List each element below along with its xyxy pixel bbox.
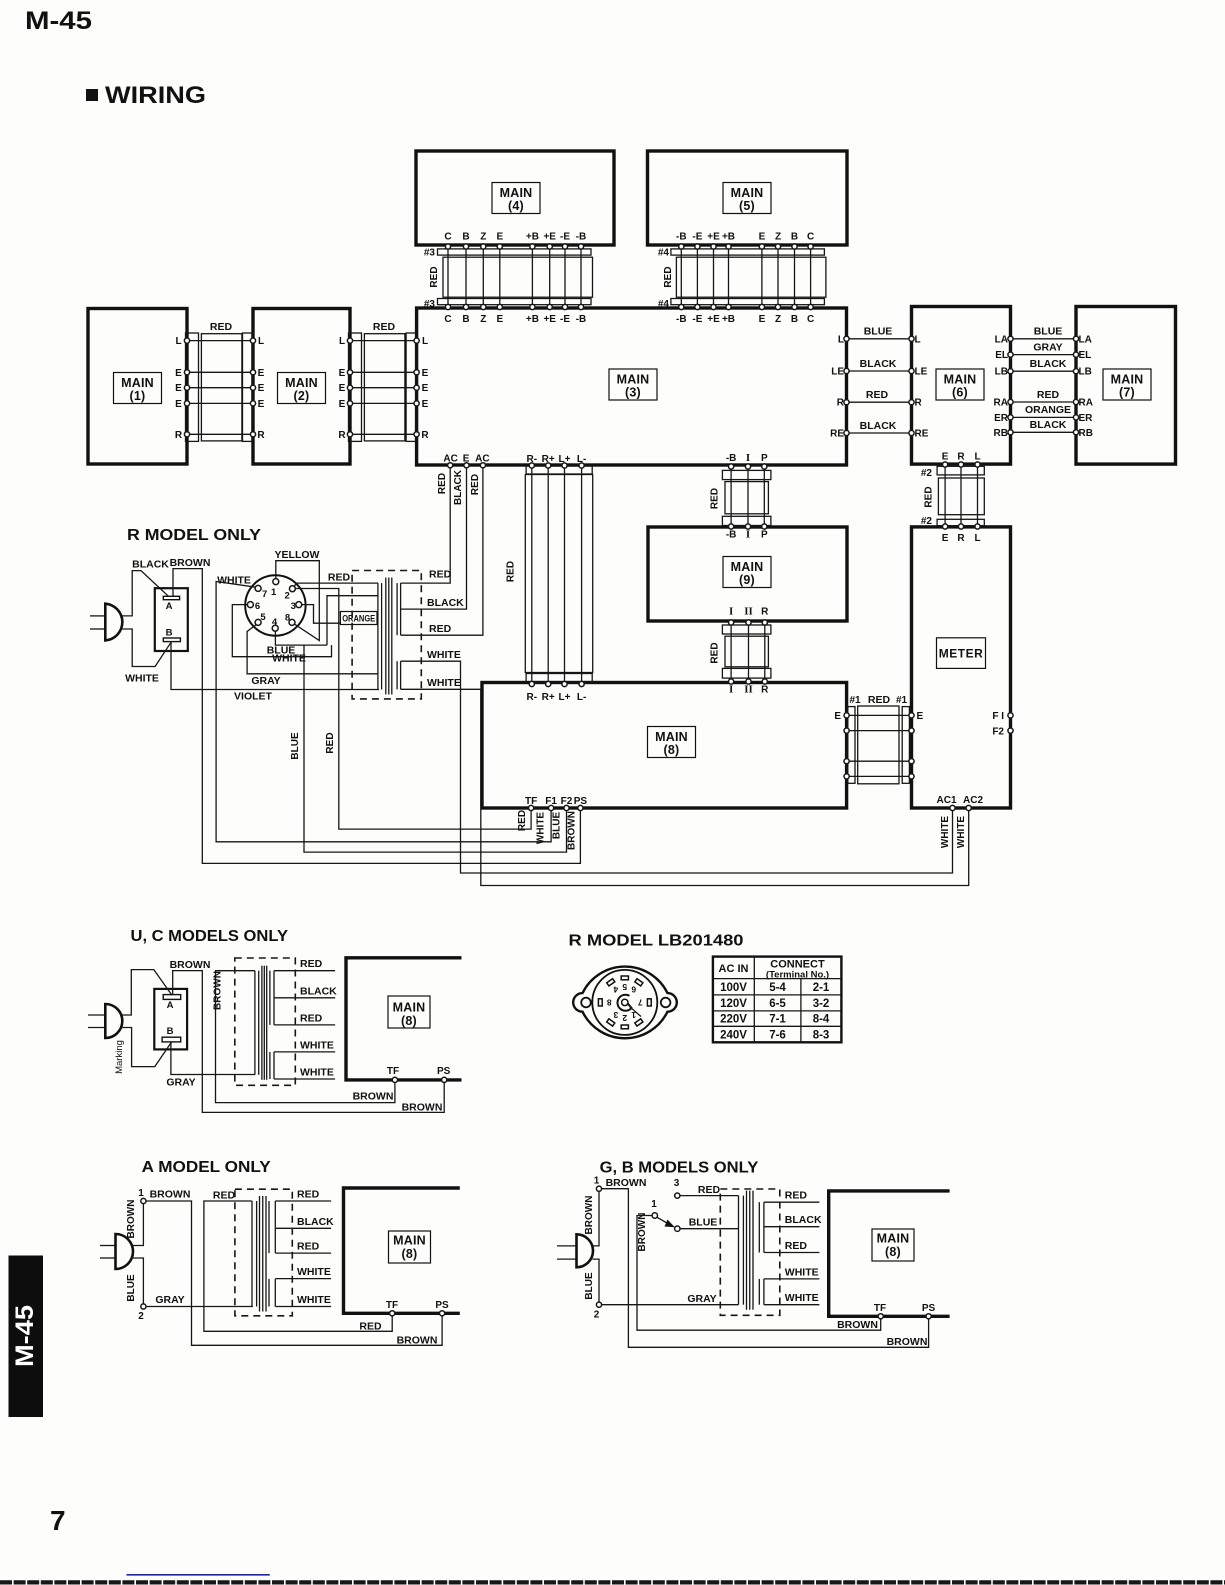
svg-text:#2: #2 xyxy=(921,468,933,479)
svg-text:8-4: 8-4 xyxy=(813,1014,830,1026)
svg-text:7-1: 7-1 xyxy=(769,1014,786,1026)
svg-text:A: A xyxy=(167,1000,174,1011)
svg-text:F2: F2 xyxy=(561,796,573,807)
svg-text:RED: RED xyxy=(325,732,336,753)
svg-text:BLACK: BLACK xyxy=(297,1216,334,1228)
svg-text:TF: TF xyxy=(874,1303,886,1314)
svg-text:6: 6 xyxy=(255,601,260,612)
svg-text:BLACK: BLACK xyxy=(132,559,169,571)
board MAIN(8) partial (U,C) xyxy=(346,958,462,1080)
board MAIN(8) partial (G,B) xyxy=(829,1191,950,1316)
svg-text:MAIN: MAIN xyxy=(731,186,764,200)
svg-text:5: 5 xyxy=(260,612,266,623)
svg-text:E: E xyxy=(463,454,470,465)
svg-text:RED: RED xyxy=(710,488,721,509)
wire BLUE plug to 2 (A model) xyxy=(126,1258,143,1304)
svg-text:BROWN: BROWN xyxy=(584,1196,595,1235)
svg-text:#2: #2 xyxy=(921,516,933,527)
svg-text:R: R xyxy=(957,452,965,463)
svg-text:L-: L- xyxy=(577,454,586,465)
wire plug to A (U,C) xyxy=(122,970,172,1015)
svg-text:+E: +E xyxy=(543,232,556,243)
connector -B I P ribbon MAIN(3)-MAIN(9) xyxy=(710,452,771,541)
terminal PS (U,C) xyxy=(437,1066,451,1083)
svg-text:E: E xyxy=(258,368,265,379)
svg-text:LE: LE xyxy=(915,367,928,378)
board MAIN (3) xyxy=(417,308,847,465)
wire BLUE L-L xyxy=(838,326,921,346)
svg-text:C: C xyxy=(444,232,451,243)
terminal F2 on METER right edge xyxy=(992,727,1013,738)
wire RED transformer primary to TF (A model) xyxy=(204,1190,392,1333)
svg-text:GRAY: GRAY xyxy=(155,1294,184,1306)
board MAIN (2) xyxy=(253,309,350,465)
svg-text:E: E xyxy=(258,383,265,394)
svg-text:(4): (4) xyxy=(508,199,524,213)
svg-text:LA: LA xyxy=(995,334,1008,345)
wire BROWN plug to 1 (A model) xyxy=(126,1200,143,1246)
wire BLACK LB-LB xyxy=(995,358,1092,378)
svg-text:100V: 100V xyxy=(720,982,747,994)
wire RED secondary output (power transformer (U,C models)) xyxy=(274,1012,335,1025)
svg-text:240V: 240V xyxy=(720,1029,747,1041)
svg-text:TF: TF xyxy=(386,1300,398,1311)
wire RED secondary output (power transformer (U,C models)) xyxy=(274,958,335,971)
wire BROWN A to PS xyxy=(170,557,581,863)
svg-text:M-45: M-45 xyxy=(11,1305,39,1367)
svg-text:RED: RED xyxy=(429,623,452,635)
svg-text:E: E xyxy=(339,383,346,394)
svg-text:BROWN: BROWN xyxy=(402,1102,443,1114)
svg-text:7: 7 xyxy=(50,1505,66,1536)
wire GRAY pin5 to transformer xyxy=(247,625,378,688)
svg-text:MAIN: MAIN xyxy=(121,376,154,390)
terminal AC2 on METER bottom + wire WHITE to transformer xyxy=(401,677,984,886)
wire RED transformer to AC xyxy=(401,463,453,583)
svg-text:M-45: M-45 xyxy=(25,7,92,35)
section bullet xyxy=(86,89,98,101)
svg-text:WHITE: WHITE xyxy=(125,673,159,685)
wire BROWN plug to 1 (G,B) xyxy=(584,1192,599,1246)
svg-text:RE: RE xyxy=(915,429,929,440)
svg-text:RED: RED xyxy=(297,1241,320,1253)
svg-text:AC IN: AC IN xyxy=(719,963,749,975)
pin labels AC E AC on MAIN(3) bottom xyxy=(443,454,489,465)
svg-text:R: R xyxy=(175,430,183,441)
svg-text:E: E xyxy=(496,314,503,325)
svg-text:E: E xyxy=(339,368,346,379)
wire WHITE secondary output (power transformer (A model)) xyxy=(275,1294,331,1307)
svg-text:E: E xyxy=(422,368,429,379)
svg-text:E: E xyxy=(175,383,182,394)
svg-text:B: B xyxy=(166,628,173,639)
svg-text:C: C xyxy=(807,314,814,325)
svg-text:P: P xyxy=(761,530,768,541)
terminal TF (U,C) xyxy=(387,1066,399,1083)
svg-text:R MODEL ONLY: R MODEL ONLY xyxy=(127,527,261,544)
svg-text:WHITE: WHITE xyxy=(427,649,461,661)
svg-text:BLUE: BLUE xyxy=(584,1272,595,1300)
terminal TF (A model) xyxy=(386,1300,398,1316)
svg-text:TF: TF xyxy=(525,796,537,807)
wire BLACK secondary output (power transformer (G,B models)) xyxy=(764,1214,822,1227)
svg-text:WHITE: WHITE xyxy=(217,575,251,587)
svg-text:BROWN: BROWN xyxy=(353,1091,394,1103)
terminal 1 (G,B) xyxy=(594,1176,602,1192)
wire BLACK secondary output (power transformer (U,C models)) xyxy=(274,985,337,998)
svg-text:TF: TF xyxy=(387,1066,399,1077)
svg-text:LB: LB xyxy=(995,367,1008,378)
svg-text:#1: #1 xyxy=(896,695,908,706)
svg-text:+E: +E xyxy=(707,232,720,243)
svg-text:G, B MODELS ONLY: G, B MODELS ONLY xyxy=(600,1160,759,1177)
svg-text:RED: RED xyxy=(868,694,891,706)
ribbon cable MAIN(2)-MAIN(3) RED xyxy=(347,321,419,441)
svg-text:MAIN: MAIN xyxy=(655,730,688,744)
svg-text:ORANGE: ORANGE xyxy=(1025,404,1071,416)
AC plug (G,B) xyxy=(557,1234,593,1267)
power transformer T1 (R model) xyxy=(352,571,421,699)
svg-text:L: L xyxy=(974,533,980,544)
svg-text:GRAY: GRAY xyxy=(687,1293,716,1305)
svg-text:WHITE: WHITE xyxy=(297,1266,331,1278)
board MAIN (9) xyxy=(648,527,847,621)
svg-text:B: B xyxy=(167,1026,174,1037)
svg-text:RED: RED xyxy=(698,1184,721,1196)
svg-text:I: I xyxy=(729,606,733,618)
svg-text:E: E xyxy=(834,711,841,722)
svg-text:RB: RB xyxy=(1079,428,1093,439)
svg-text:BLUE: BLUE xyxy=(552,812,563,840)
svg-text:E: E xyxy=(175,399,182,410)
svg-text:R: R xyxy=(421,430,429,441)
wire GRAY EL-EL xyxy=(995,341,1091,361)
svg-text:F2: F2 xyxy=(992,727,1004,738)
svg-text:BROWN: BROWN xyxy=(637,1213,648,1252)
svg-text:PS: PS xyxy=(574,796,588,807)
svg-text:L: L xyxy=(915,334,921,345)
svg-text:(3): (3) xyxy=(625,386,641,400)
terminal AC1 on METER bottom + wire WHITE to transformer xyxy=(401,649,957,873)
wire RED secondary output (power transformer (A model)) xyxy=(275,1189,331,1202)
connector #4 ribbon MAIN(5)-MAIN(3) xyxy=(658,232,826,326)
svg-text:R-: R- xyxy=(527,692,538,703)
svg-text:(8): (8) xyxy=(664,743,680,757)
wire GRAY B to transformer (U,C) xyxy=(166,1042,255,1089)
svg-text:R: R xyxy=(257,430,265,441)
wire RED pin2 to TF xyxy=(295,589,532,830)
svg-text:-E: -E xyxy=(692,314,702,325)
svg-text:R: R xyxy=(761,607,769,618)
svg-text:Marking: Marking xyxy=(114,1040,125,1074)
svg-text:BLUE: BLUE xyxy=(864,326,893,338)
svg-text:8-3: 8-3 xyxy=(813,1029,830,1041)
svg-text:(8): (8) xyxy=(885,1245,901,1259)
svg-text:MAIN: MAIN xyxy=(617,373,650,387)
svg-text:BLACK: BLACK xyxy=(1030,419,1067,431)
svg-text:AC2: AC2 xyxy=(963,795,983,806)
svg-text:RED: RED xyxy=(300,1012,323,1024)
connector #3 ribbon MAIN(4)-MAIN(3) xyxy=(424,232,593,326)
wire BROWN 1 to PS (G,B) xyxy=(602,1177,929,1348)
pin labels L E E E R on MAIN(2) right edge xyxy=(338,336,346,441)
wire BROWN switch to TF (G,B) xyxy=(637,1216,881,1332)
svg-text:1: 1 xyxy=(594,1176,600,1187)
svg-text:E: E xyxy=(759,232,766,243)
svg-text:GRAY: GRAY xyxy=(1033,341,1062,353)
svg-text:-E: -E xyxy=(692,232,702,243)
svg-text:E: E xyxy=(258,399,265,410)
svg-text:MAIN: MAIN xyxy=(500,186,533,200)
svg-text:WHITE: WHITE xyxy=(940,816,951,849)
svg-text:BLACK: BLACK xyxy=(427,597,464,609)
svg-text:L: L xyxy=(175,336,181,347)
wire link pin junction to primary xyxy=(327,596,378,645)
svg-text:RED: RED xyxy=(663,266,674,287)
svg-text:7: 7 xyxy=(638,997,643,1007)
svg-text:B: B xyxy=(791,232,798,243)
svg-text:RED: RED xyxy=(785,1190,808,1202)
wire RED transformer to AC (2nd) xyxy=(401,463,486,636)
svg-text:2: 2 xyxy=(284,590,289,601)
svg-text:BLACK: BLACK xyxy=(785,1214,822,1226)
svg-text:RED: RED xyxy=(924,486,935,507)
svg-text:-B: -B xyxy=(726,530,737,541)
svg-text:#4: #4 xyxy=(658,248,670,259)
board MAIN (7) xyxy=(1076,307,1176,465)
wire WHITE secondary output (power transformer (G,B models)) xyxy=(764,1266,820,1279)
svg-text:7: 7 xyxy=(262,589,267,600)
pin labels L E E E R on MAIN(1) right edge xyxy=(175,336,183,441)
svg-text:#3: #3 xyxy=(424,248,436,259)
svg-text:BROWN: BROWN xyxy=(397,1334,438,1346)
svg-text:2-1: 2-1 xyxy=(813,982,830,994)
wire BROWN transformer primary to TF (U,C) xyxy=(213,971,395,1103)
wire WHITE plug to B xyxy=(122,629,171,685)
svg-text:WHITE: WHITE xyxy=(956,816,967,849)
terminal PS (G,B) xyxy=(922,1303,936,1319)
svg-text:Z: Z xyxy=(480,232,486,243)
wire GRAY 2 to transformer (G,B) xyxy=(602,1293,739,1305)
svg-text:(2): (2) xyxy=(294,389,310,403)
connector #2 ribbon MAIN(6)-METER xyxy=(921,452,984,545)
svg-text:-E: -E xyxy=(560,232,570,243)
svg-text:R+: R+ xyxy=(542,692,555,703)
terminal F1 on METER right edge xyxy=(992,711,1013,722)
wire RED secondary output (power transformer (G,B models)) xyxy=(764,1190,820,1203)
svg-text:8: 8 xyxy=(285,612,290,623)
wire VIOLET B to transformer xyxy=(171,642,379,703)
wire BLACK secondary output (power transformer (A model)) xyxy=(275,1216,334,1229)
svg-text:RED: RED xyxy=(710,642,721,663)
terminals TF F1 F2 PS on MAIN(8) bottom xyxy=(517,796,587,850)
svg-text:U, C MODELS ONLY: U, C MODELS ONLY xyxy=(131,928,289,945)
svg-text:RED: RED xyxy=(470,474,481,495)
svg-text:II: II xyxy=(744,606,753,618)
pin labels L E E E R on MAIN(2) left edge xyxy=(257,336,265,441)
svg-text:L+: L+ xyxy=(559,454,571,465)
sidebar tab M-45 xyxy=(9,1256,44,1418)
svg-text:RB: RB xyxy=(994,428,1008,439)
wire WHITE secondary output (power transformer (A model)) xyxy=(275,1266,331,1279)
svg-text:1: 1 xyxy=(651,1199,657,1210)
svg-text:L: L xyxy=(838,334,844,345)
svg-text:8: 8 xyxy=(607,997,612,1007)
svg-text:5-4: 5-4 xyxy=(769,982,786,994)
wire WHITE secondary output (power transformer (G,B models)) xyxy=(764,1292,820,1305)
svg-text:B: B xyxy=(791,314,798,325)
svg-text:2: 2 xyxy=(594,1310,600,1321)
AC receptacle A/B (U,C) xyxy=(154,989,187,1050)
svg-text:BLACK: BLACK xyxy=(453,469,464,505)
footer bottom band xyxy=(0,1580,1225,1584)
svg-text:-B: -B xyxy=(726,453,737,464)
svg-text:BLACK: BLACK xyxy=(300,985,337,997)
wire Marking plug to B (U,C) xyxy=(114,1028,172,1074)
svg-text:PS: PS xyxy=(435,1300,449,1311)
svg-text:WHITE: WHITE xyxy=(785,1292,819,1304)
svg-text:RED: RED xyxy=(300,958,323,970)
wire BLACK transformer to E xyxy=(401,463,470,609)
svg-text:R: R xyxy=(338,430,346,441)
svg-text:E: E xyxy=(759,314,766,325)
svg-text:Z: Z xyxy=(480,314,486,325)
wire BLUE LA-LA xyxy=(995,326,1092,346)
svg-text:RED: RED xyxy=(785,1240,808,1252)
wire RED RA-RA xyxy=(994,389,1093,409)
svg-text:BROWN: BROWN xyxy=(837,1319,878,1331)
svg-text:WHITE: WHITE xyxy=(300,1067,334,1079)
svg-text:-B: -B xyxy=(576,232,587,243)
svg-text:RED: RED xyxy=(1037,389,1060,401)
svg-text:RED: RED xyxy=(213,1190,236,1202)
svg-text:RED: RED xyxy=(328,572,351,584)
svg-text:(Terminal No.): (Terminal No.) xyxy=(766,970,829,981)
svg-text:AC: AC xyxy=(475,454,489,465)
svg-text:Z: Z xyxy=(775,232,781,243)
connector I II R ribbon MAIN(9)-MAIN(8) xyxy=(710,606,771,696)
wire RED secondary output (power transformer (G,B models)) xyxy=(764,1240,820,1253)
svg-text:F I: F I xyxy=(992,711,1004,722)
svg-text:2: 2 xyxy=(138,1311,144,1322)
svg-text:LA: LA xyxy=(1079,334,1092,345)
svg-text:E: E xyxy=(339,399,346,410)
svg-text:+B: +B xyxy=(526,314,539,325)
svg-text:I: I xyxy=(729,684,733,696)
svg-text:3: 3 xyxy=(674,1178,680,1189)
terminal 2 (A model) xyxy=(138,1304,146,1322)
svg-text:+B: +B xyxy=(722,232,735,243)
svg-text:WHITE: WHITE xyxy=(300,1039,334,1051)
svg-text:LE: LE xyxy=(831,367,844,378)
board MAIN (6) xyxy=(912,307,1011,465)
svg-text:GRAY: GRAY xyxy=(166,1077,195,1089)
svg-text:+E: +E xyxy=(707,314,720,325)
svg-text:(1): (1) xyxy=(130,389,146,403)
board MAIN (8) xyxy=(482,683,847,809)
svg-text:PS: PS xyxy=(922,1303,936,1314)
svg-text:Z: Z xyxy=(775,314,781,325)
svg-text:E: E xyxy=(422,399,429,410)
svg-text:R MODEL LB201480: R MODEL LB201480 xyxy=(569,933,744,950)
svg-text:L: L xyxy=(422,336,428,347)
AC receptacle A/B (R model) xyxy=(155,588,188,651)
svg-text:WHITE: WHITE xyxy=(785,1266,819,1278)
power transformer (G,B models) xyxy=(720,1189,780,1315)
svg-text:BROWN: BROWN xyxy=(567,811,578,850)
svg-text:-B: -B xyxy=(576,314,587,325)
wire ORANGE ER-ER xyxy=(994,404,1093,424)
svg-text:I: I xyxy=(746,452,750,464)
svg-text:+B: +B xyxy=(526,232,539,243)
cable R- R+ L+ L- MAIN(3)-MAIN(8) xyxy=(506,454,593,703)
svg-text:(6): (6) xyxy=(952,386,968,400)
svg-text:5: 5 xyxy=(622,982,627,992)
svg-text:RED: RED xyxy=(373,321,396,333)
svg-text:MAIN: MAIN xyxy=(944,373,977,387)
power transformer (U,C models) xyxy=(235,958,295,1085)
svg-text:MAIN: MAIN xyxy=(1111,373,1144,387)
svg-text:6: 6 xyxy=(631,985,636,995)
svg-text:RED: RED xyxy=(517,810,528,831)
svg-text:RED: RED xyxy=(866,389,889,401)
svg-text:1: 1 xyxy=(271,587,277,598)
board METER xyxy=(912,527,1011,808)
svg-text:4: 4 xyxy=(272,617,278,628)
svg-text:RED: RED xyxy=(359,1320,382,1332)
svg-text:METER: METER xyxy=(939,647,984,661)
svg-text:(8): (8) xyxy=(401,1014,417,1028)
wire GRAY 2 to transformer (A model) xyxy=(146,1294,253,1307)
svg-text:E: E xyxy=(917,711,924,722)
svg-text:MAIN: MAIN xyxy=(731,560,764,574)
svg-text:AC1: AC1 xyxy=(937,795,957,806)
wire BLACK plug to A xyxy=(123,559,170,616)
terminal 2 (G,B) xyxy=(594,1302,602,1320)
wire YELLOW pin1 loop xyxy=(275,549,320,641)
svg-text:6-5: 6-5 xyxy=(769,998,786,1010)
svg-text:3: 3 xyxy=(613,1010,618,1020)
wire RED R-R xyxy=(837,389,923,409)
wire WHITE pin7 to F1 xyxy=(216,575,551,842)
svg-text:E: E xyxy=(942,533,949,544)
svg-text:GRAY: GRAY xyxy=(251,675,280,687)
terminal PS (A model) xyxy=(435,1300,449,1316)
svg-text:BLACK: BLACK xyxy=(860,420,897,432)
wire RED pin2 to transformer primary xyxy=(294,572,378,587)
svg-text:BLUE: BLUE xyxy=(126,1274,137,1302)
terminal 1 (A model) xyxy=(138,1188,146,1204)
svg-text:RA: RA xyxy=(994,398,1008,409)
voltage selector socket LB201480 xyxy=(573,967,677,1039)
terminal TF (G,B) xyxy=(874,1303,886,1319)
wire WHITE pin6 xyxy=(232,605,331,665)
svg-text:BLACK: BLACK xyxy=(1030,358,1067,370)
svg-text:L: L xyxy=(258,336,264,347)
svg-text:WIRING: WIRING xyxy=(105,82,206,109)
svg-text:BLUE: BLUE xyxy=(1034,326,1063,338)
AC plug (R model) xyxy=(90,604,122,641)
wire BLUE pin4 to F2 xyxy=(267,631,567,852)
board MAIN (4) xyxy=(416,151,614,245)
svg-text:R: R xyxy=(957,533,965,544)
terminal 3 + wire RED to transformer (G,B) xyxy=(674,1178,739,1198)
voltage selector socket (R model) xyxy=(245,575,305,635)
svg-text:RED: RED xyxy=(210,321,233,333)
svg-text:ER: ER xyxy=(994,413,1009,424)
svg-text:220V: 220V xyxy=(720,1014,747,1026)
svg-text:RED: RED xyxy=(429,569,452,581)
